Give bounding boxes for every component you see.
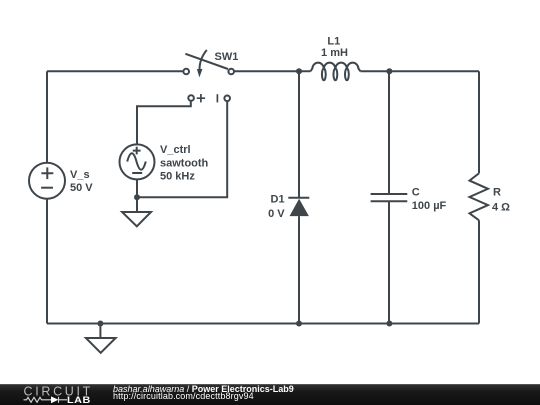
- svg-text:0 V: 0 V: [268, 208, 285, 220]
- svg-text:SW1: SW1: [215, 51, 239, 63]
- svg-text:D1: D1: [271, 193, 285, 205]
- svg-text:C: C: [412, 187, 420, 199]
- svg-text:sawtooth: sawtooth: [160, 158, 209, 170]
- svg-text:V_ctrl: V_ctrl: [160, 144, 191, 156]
- svg-text:50 kHz: 50 kHz: [160, 171, 195, 183]
- svg-text:1 mH: 1 mH: [321, 47, 348, 59]
- svg-text:50 V: 50 V: [70, 182, 93, 194]
- svg-text:LAB: LAB: [67, 396, 91, 405]
- svg-text:V_s: V_s: [70, 169, 90, 181]
- svg-text:100 µF: 100 µF: [412, 200, 447, 212]
- svg-text:4 Ω: 4 Ω: [492, 201, 510, 213]
- svg-text:L1: L1: [327, 36, 340, 48]
- svg-text:R: R: [493, 187, 501, 199]
